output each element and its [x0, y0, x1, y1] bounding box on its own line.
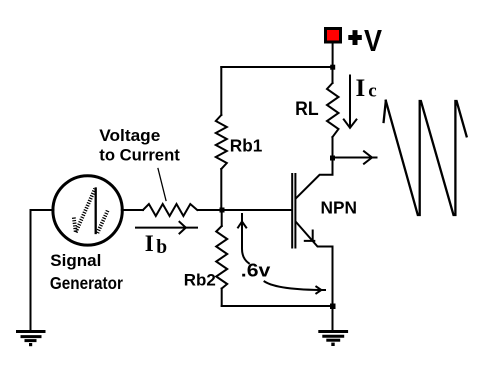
- svg-text:.6v: .6v: [241, 260, 270, 280]
- svg-text:Signal: Signal: [50, 251, 101, 270]
- wire generator left: [31, 210, 54, 331]
- label Signal Generator: [50, 251, 123, 293]
- power terminal +V red square: [326, 29, 341, 43]
- transistor collector lead: [296, 158, 333, 198]
- ground left: [18, 332, 45, 347]
- ground right: [320, 332, 347, 347]
- transistor emitter arrowhead: [305, 231, 315, 241]
- node emitter junction: [330, 304, 336, 310]
- resistor RL: [327, 67, 339, 158]
- node base junction: [220, 208, 225, 213]
- svg-text:V: V: [364, 24, 383, 58]
- svg-text:b: b: [156, 237, 167, 258]
- svg-text:to Current: to Current: [99, 147, 180, 165]
- wire bottom rail: [222, 305, 333, 307]
- wire base to bar: [198, 209, 292, 211]
- wire Rb1 top: [220, 67, 222, 115]
- arrow collector output: [333, 151, 377, 163]
- wire +V stem: [332, 44, 334, 67]
- resistor Rb1: [216, 115, 227, 169]
- wire top rail: [221, 66, 332, 68]
- label Ib: [145, 231, 168, 258]
- svg-text:Rb1: Rb1: [230, 136, 263, 156]
- svg-text:c: c: [368, 81, 376, 102]
- svg-text:RL: RL: [295, 99, 319, 120]
- svg-text:Generator: Generator: [50, 273, 123, 293]
- label Ic: [356, 75, 377, 102]
- transistor emitter lead: [296, 222, 333, 306]
- svg-text:I: I: [356, 75, 366, 102]
- wire generator right: [122, 209, 143, 211]
- wire Rb1 bottom: [220, 169, 222, 210]
- resistor Rb2: [216, 210, 227, 306]
- svg-text:Voltage: Voltage: [99, 127, 160, 145]
- arrow Ic current: [344, 76, 357, 128]
- waveform output sawtooth: [384, 101, 467, 215]
- resistor base (voltage to current): [143, 204, 197, 216]
- svg-text:Rb2: Rb2: [184, 272, 216, 290]
- arrow Ib current: [136, 222, 197, 234]
- label +V: [348, 24, 382, 58]
- generator sawtooth symbol: [74, 189, 108, 234]
- node collector junction: [330, 156, 335, 161]
- svg-text:NPN: NPN: [321, 198, 358, 218]
- svg-text:I: I: [145, 231, 154, 256]
- pointer line to resistor: [158, 169, 166, 201]
- node top junction: [330, 65, 335, 70]
- label Voltage to Current: [99, 127, 180, 165]
- transistor Q1 NPN base bar: [292, 174, 295, 248]
- arrow .6v to emitter (curved right): [265, 282, 326, 294]
- signal generator circle: [53, 176, 122, 245]
- arrow .6v to base (up): [238, 214, 249, 263]
- wire emitter ground stem: [332, 306, 334, 331]
